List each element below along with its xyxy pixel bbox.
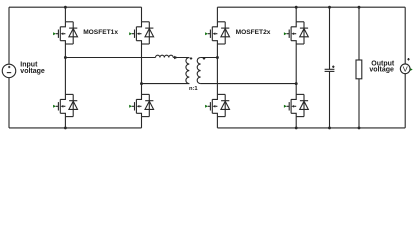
wire: input source top lead (8, 7, 10, 64)
svg-text:MOSFET2x: MOSFET2x (236, 29, 271, 36)
wire: voltmeter top lead (404, 7, 406, 64)
transistor MOSFET1 low-side leg1 (53, 94, 77, 116)
transistor MOSFET2 low-side leg3 (205, 94, 229, 116)
wire: leg2 midpoint to primary bottom (142, 83, 190, 85)
wire: leg1 midpoint (64, 44, 66, 94)
junction capacitor bottom rail (328, 126, 331, 129)
svg-text:V: V (403, 64, 408, 73)
wire: resistor bottom lead (358, 79, 360, 128)
wire: leg3 source to rail (216, 117, 218, 128)
junction leg4 midpoint node (295, 82, 298, 85)
transformer primary winding (186, 57, 192, 83)
wire: leg4 source to rail (295, 117, 297, 128)
transistor MOSFET1 high-side leg1 (53, 22, 77, 44)
wire: leg2 drain (141, 7, 143, 22)
transistor MOSFET1 low-side leg2 (129, 94, 153, 116)
junction leg1 bottom rail (64, 126, 67, 129)
wire: bottom rail left bridge (9, 127, 142, 129)
transformer secondary winding (197, 57, 205, 83)
wire: leg2 source to rail (141, 117, 143, 128)
wire: secondary top to leg3 midpoint (201, 57, 218, 59)
wire: leg1 source to rail (64, 117, 66, 128)
svg-text:MOSFET1x: MOSFET1x (83, 29, 118, 36)
wire: input source bottom lead (8, 78, 10, 128)
wire: leg1 midpoint to inductor (65, 57, 155, 59)
junction leg3 midpoint node (216, 56, 219, 59)
voltage source V_in circle (2, 64, 16, 78)
transistor MOSFET2 high-side leg4 (284, 22, 308, 44)
wire: leg1 drain (64, 7, 66, 22)
svg-text:voltage: voltage (20, 68, 45, 75)
wire: leg4 midpoint (295, 44, 297, 94)
junction resistor bottom rail (358, 126, 361, 129)
wire: voltmeter bottom lead (404, 74, 406, 128)
wire: secondary bottom to leg4 midpoint (201, 83, 297, 85)
transistor MOSFET2 low-side leg4 (284, 94, 308, 116)
wire: inductor to primary top (173, 57, 189, 59)
transistor MOSFET1 high-side leg2 (129, 22, 153, 44)
transistor MOSFET2 high-side leg3 (205, 22, 229, 44)
wire: leg3 drain (216, 7, 218, 22)
wire: bottom rail right bridge (217, 127, 405, 129)
inductor L leakage (156, 55, 179, 59)
resistor R load (356, 60, 362, 79)
wire: capacitor bottom lead (329, 71, 331, 128)
svg-text:n:1: n:1 (189, 86, 198, 92)
wire: leg3 midpoint (216, 44, 218, 94)
wire: leg2 midpoint (141, 44, 143, 94)
capacitor C out (325, 66, 335, 72)
junction leg4 bottom rail (295, 126, 298, 129)
junction resistor top rail (358, 6, 361, 9)
wire: resistor top lead (358, 7, 360, 60)
junction leg2 midpoint node (140, 82, 143, 85)
svg-text:voltage: voltage (369, 67, 394, 74)
junction capacitor top rail (328, 6, 331, 9)
junction leg4 top rail (295, 6, 298, 9)
wire: top rail right bridge (217, 6, 405, 8)
voltmeter Vm circle (400, 58, 412, 74)
wire: leg4 drain (295, 7, 297, 22)
junction leg1 top rail (64, 6, 67, 9)
wire: capacitor top lead (329, 7, 331, 69)
wire: top rail left bridge (9, 6, 142, 8)
junction leg1 midpoint node (64, 56, 67, 59)
